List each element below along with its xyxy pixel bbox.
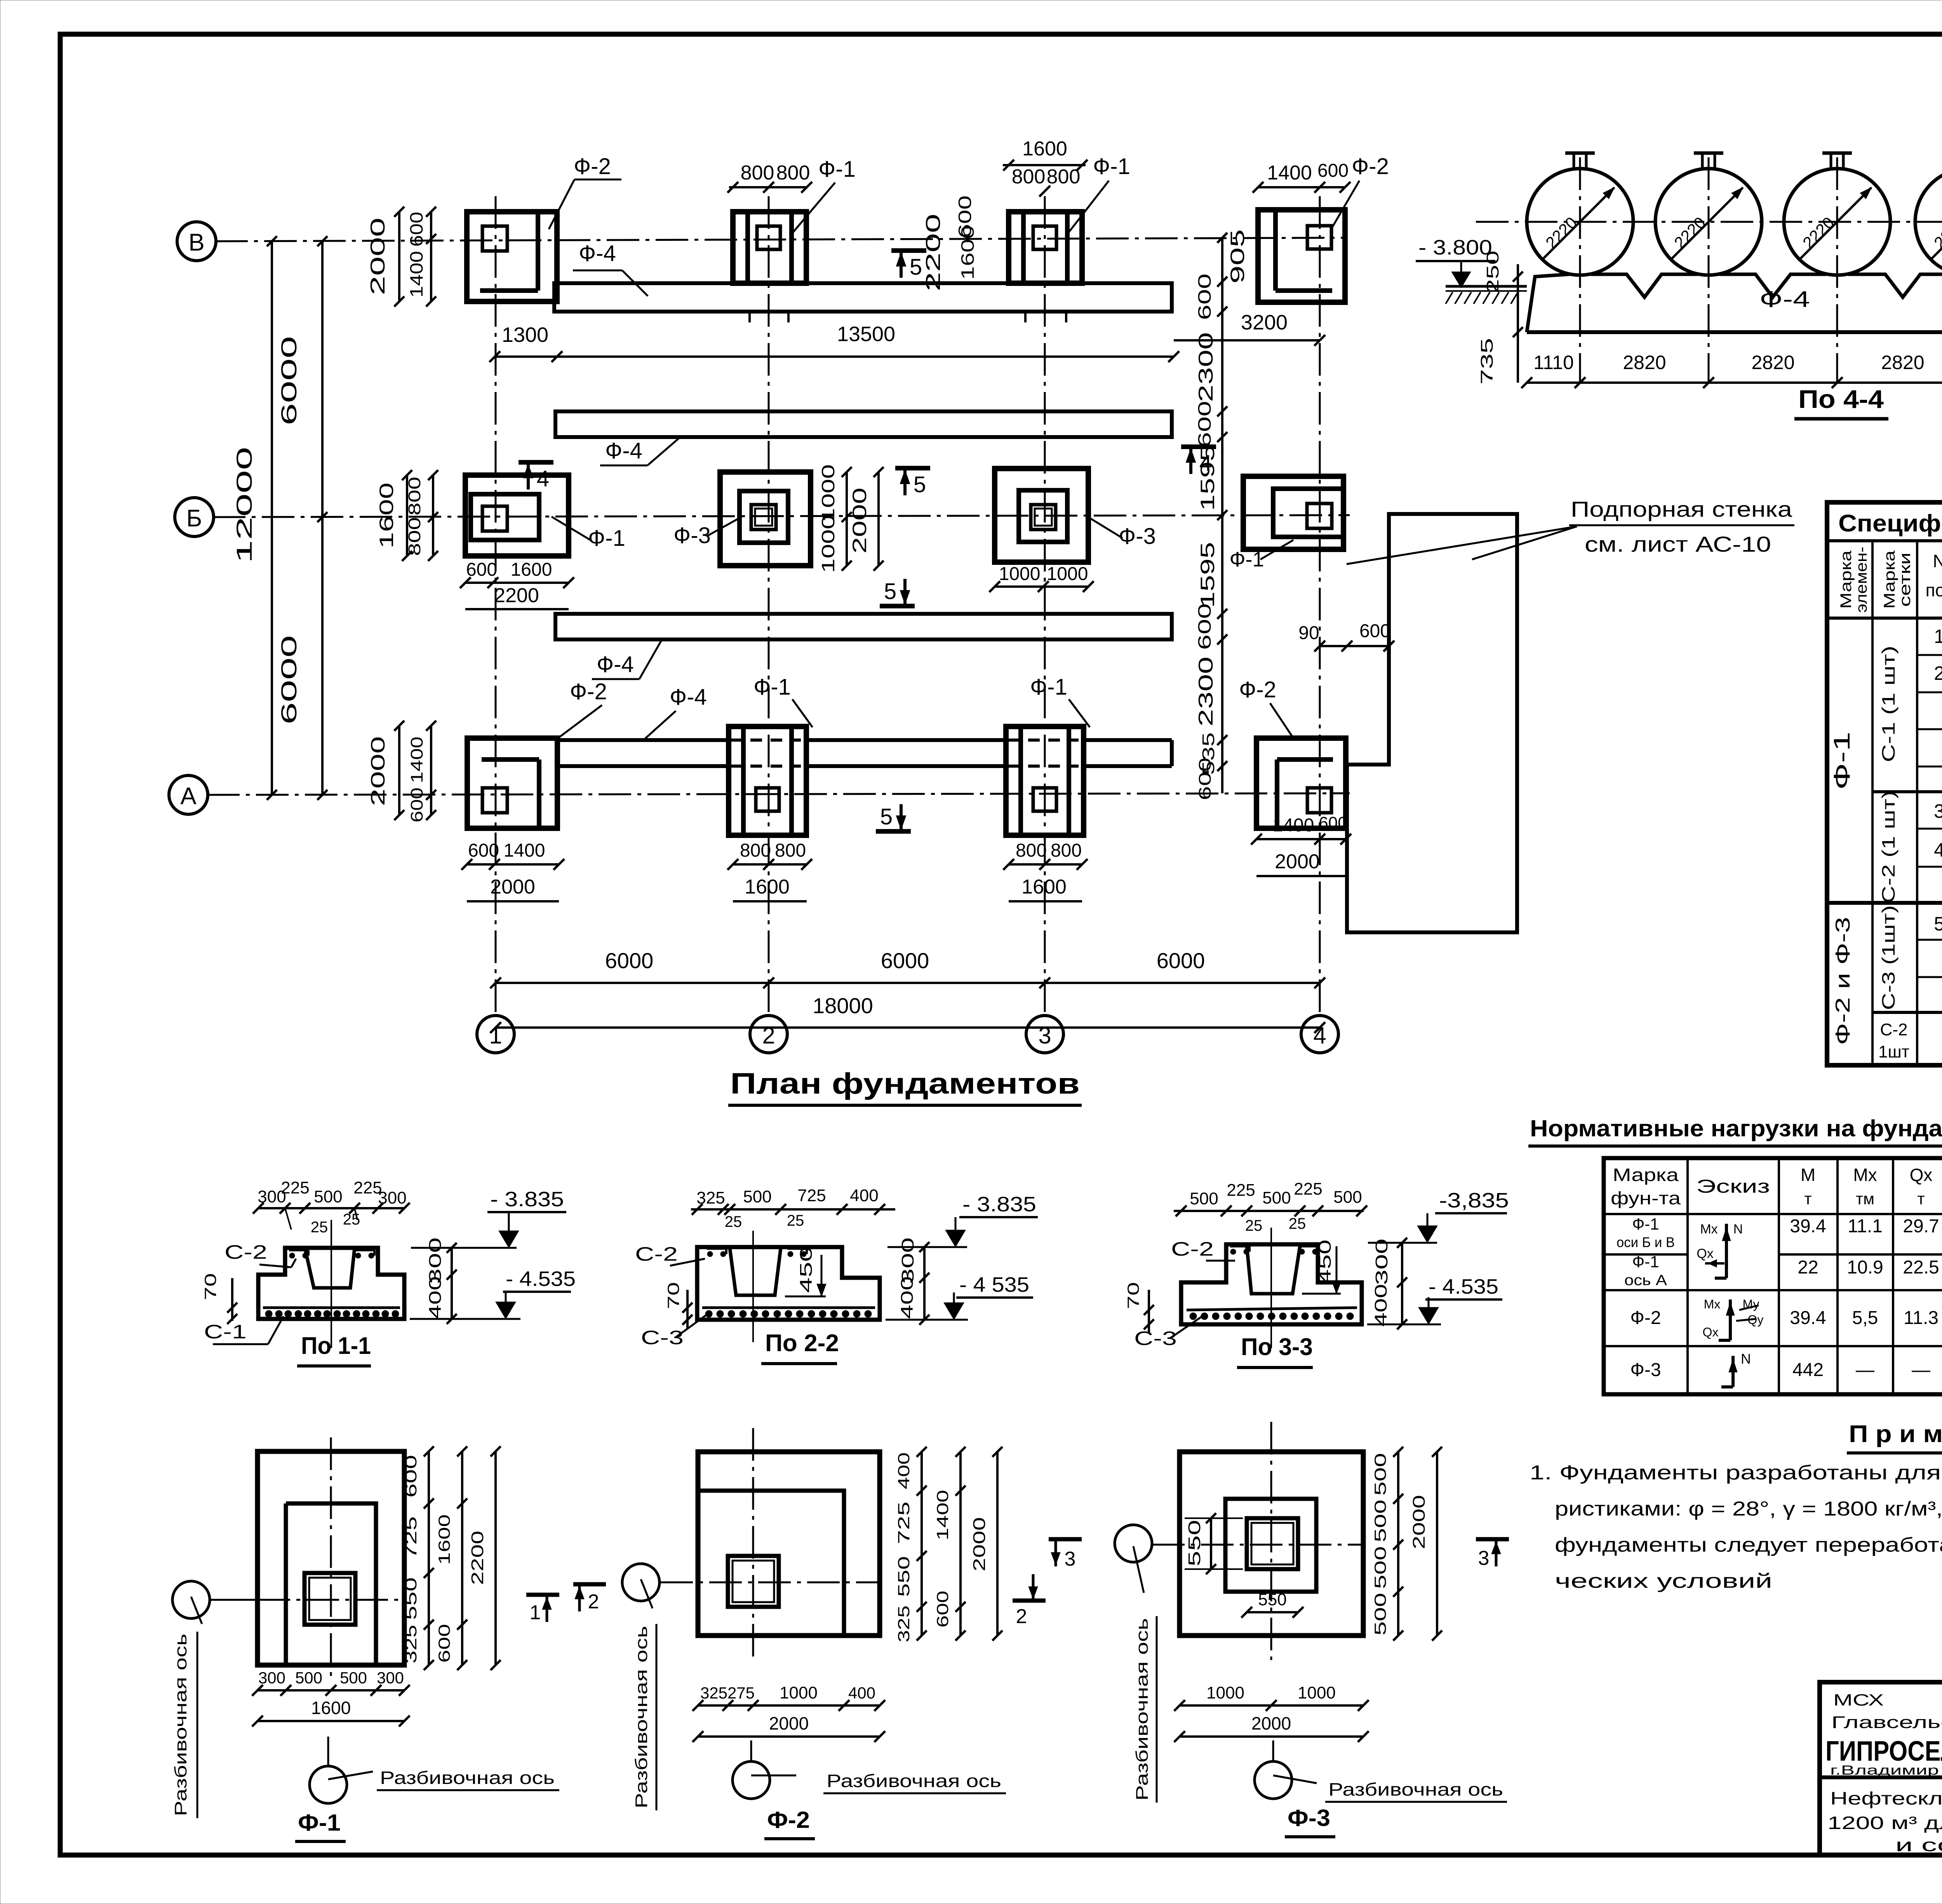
svg-text:600: 600 (402, 1455, 420, 1498)
dimension 2000 1400 600 слева от Ф-2 В/1 (398, 212, 400, 301)
svg-text:С-3: С-3 (641, 1327, 684, 1348)
axis circle 3 (1026, 1016, 1063, 1053)
svg-text:Qх: Qх (1910, 1165, 1933, 1185)
По 3-3 centerline (1270, 1228, 1272, 1348)
svg-text:С-1: С-1 (204, 1321, 247, 1343)
svg-text:6000: 6000 (1157, 948, 1205, 973)
footing Ф-2 А/1 (467, 738, 557, 828)
svg-text:М: М (1801, 1165, 1815, 1185)
svg-text:400: 400 (426, 1276, 445, 1319)
svg-text:500: 500 (1371, 1546, 1389, 1589)
footing Ф-1 Б/1 (465, 475, 569, 556)
svg-text:По 2-2: По 2-2 (765, 1330, 839, 1357)
axis line 3 (1044, 196, 1046, 1015)
foundation strip Ф-4 section 4-4 (1527, 274, 1942, 332)
section mark 3 right of Ф-3 (1476, 1537, 1509, 1542)
svg-text:Мх: Мх (1704, 1297, 1721, 1311)
svg-text:ГИПРОСЕЛЬХОЗПРОМ: ГИПРОСЕЛЬХОЗПРОМ (1825, 1736, 1942, 1767)
strip footing Ф-4 middle 2 (555, 614, 1172, 639)
dimension 800 800 под Ф-1 А/2 (733, 863, 807, 866)
svg-text:2820: 2820 (1623, 352, 1666, 373)
svg-text:1600: 1600 (1022, 138, 1067, 160)
tank centerline 1 (1579, 157, 1581, 383)
По 3-3 dims 300 400 (1372, 1239, 1391, 1285)
title block frame (1820, 1682, 1942, 1855)
dimension 800 800 над осью 2 (729, 186, 807, 188)
svg-text:1: 1 (1934, 625, 1942, 647)
svg-text:1000: 1000 (780, 1683, 818, 1702)
section По 3-3 body (1181, 1244, 1362, 1324)
dim 250 735 left (1483, 251, 1502, 293)
svg-text:18000: 18000 (813, 993, 873, 1018)
dimension 905 600 right of В (1221, 238, 1223, 312)
svg-text:600: 600 (407, 787, 426, 822)
svg-text:Ф-1: Ф-1 (1829, 732, 1855, 790)
svg-text:В: В (188, 229, 204, 256)
tank nozzle 3 (1830, 153, 1832, 169)
axis circle 4 (1301, 1016, 1338, 1053)
svg-text:22.5: 22.5 (1903, 1257, 1939, 1278)
detail Ф-1 dim 2200 (494, 1451, 497, 1665)
svg-text:- 4.535: - 4.535 (506, 1267, 576, 1291)
svg-text:800: 800 (405, 517, 424, 556)
svg-text:Ф-4: Ф-4 (605, 438, 642, 463)
svg-text:1000: 1000 (999, 564, 1041, 584)
svg-text:500: 500 (1371, 1453, 1389, 1496)
svg-text:2820: 2820 (1751, 352, 1794, 373)
svg-text:25: 25 (1289, 1215, 1306, 1232)
label Ф-2 и Ф-3 (rotated) (1832, 917, 1854, 1045)
dimension 2300 600 right chain (1221, 312, 1223, 515)
detail Ф-1 outer (258, 1451, 404, 1665)
svg-text:325: 325 (894, 1606, 913, 1643)
axis line В (215, 238, 1345, 241)
dimension 2200 1600 600 возле сечения 5 (922, 214, 945, 291)
svg-text:400: 400 (1371, 1284, 1390, 1327)
axis circle 1 (477, 1016, 514, 1053)
footing Ф-2 В/1 (467, 212, 557, 301)
svg-text:1600: 1600 (511, 559, 552, 580)
svg-text:1000: 1000 (1047, 564, 1088, 584)
svg-text:450: 450 (1316, 1240, 1335, 1284)
svg-text:725: 725 (894, 1502, 913, 1544)
detail Ф-2 dim 2000 (996, 1452, 999, 1636)
svg-text:600: 600 (1194, 603, 1215, 650)
svg-text:1400: 1400 (504, 840, 545, 861)
svg-text:3: 3 (1478, 1547, 1490, 1570)
svg-text:Ф-1: Ф-1 (1093, 154, 1130, 179)
tank nozzle 2 (1701, 153, 1704, 169)
svg-text:Подпорная стенка: Подпорная стенка (1571, 497, 1792, 521)
detail Ф-3 centerlines (1152, 1544, 1363, 1546)
footing Ф-2 А/4 (1256, 738, 1346, 828)
footing Ф-1 А/2 (729, 726, 806, 835)
svg-text:5: 5 (1934, 913, 1942, 935)
detail Ф-2 centerlines (660, 1582, 880, 1583)
svg-text:70: 70 (1124, 1282, 1142, 1309)
svg-text:800: 800 (775, 840, 806, 861)
svg-text:—: — (1912, 1360, 1930, 1380)
svg-text:Разбивочная ось: Разбивочная ось (1328, 1779, 1503, 1799)
svg-text:По 3-3: По 3-3 (1241, 1334, 1313, 1360)
svg-text:фундаменты следует перераб: фундаменты следует переработать в зависи… (1555, 1534, 1942, 1556)
axis circle 2 (750, 1016, 787, 1053)
По 2-2 centerline (752, 1231, 754, 1342)
svg-text:11.3: 11.3 (1904, 1308, 1939, 1328)
svg-text:500: 500 (295, 1669, 322, 1687)
svg-text:25: 25 (787, 1212, 804, 1229)
svg-text:300: 300 (1372, 1239, 1391, 1285)
table column lines (1871, 541, 1874, 1065)
svg-text:1600: 1600 (435, 1514, 453, 1565)
svg-text:4: 4 (1934, 839, 1942, 861)
svg-text:Ф-4: Ф-4 (597, 652, 634, 677)
По 2-2 С-2 marks (707, 1251, 713, 1257)
svg-text:Ф-1: Ф-1 (588, 526, 625, 551)
svg-text:1400: 1400 (1267, 162, 1312, 184)
svg-text:5: 5 (884, 579, 896, 604)
detail Ф-2 bottom dims 325 275 1000 400 (698, 1704, 880, 1707)
svg-text:325: 325 (696, 1188, 725, 1207)
svg-text:С-2 (1 шт): С-2 (1 шт) (1878, 791, 1898, 903)
svg-text:Ф-4: Ф-4 (670, 685, 707, 710)
svg-text:поз: поз (1925, 580, 1942, 600)
svg-text:600: 600 (1319, 814, 1347, 833)
group separator С-3 / С-2 (1872, 1011, 1942, 1014)
svg-text:2300: 2300 (1195, 332, 1217, 402)
svg-text:1600: 1600 (376, 483, 397, 549)
svg-text:Нормативные нагрузки на фунд: Нормативные нагрузки на фундамент от кол… (1530, 1115, 1942, 1141)
svg-text:2000: 2000 (490, 876, 535, 898)
svg-text:500: 500 (1371, 1593, 1389, 1636)
section mark 5 mid lower (880, 604, 915, 608)
detail Ф-3 dim 2000 bottom (1180, 1735, 1363, 1738)
tank circle 4 (1915, 169, 1942, 275)
svg-text:550: 550 (1258, 1590, 1286, 1609)
svg-text:600: 600 (1194, 401, 1215, 448)
svg-text:6000: 6000 (881, 948, 929, 973)
svg-text:т: т (1804, 1190, 1811, 1208)
svg-text:500: 500 (1190, 1189, 1218, 1208)
dim row 1110 2820x4 1110 (1527, 381, 1942, 384)
svg-text:11.1: 11.1 (1848, 1216, 1883, 1237)
axis line А (207, 793, 1350, 795)
section mark 5 А (876, 829, 911, 834)
svg-text:450: 450 (797, 1246, 816, 1293)
detail Ф-3 middle (1225, 1499, 1316, 1592)
svg-text:800: 800 (740, 840, 771, 861)
svg-text:Ф-2: Ф-2 (570, 679, 607, 704)
tank circle 3 (1784, 169, 1890, 275)
По 1-1 dims 300 400 (426, 1237, 445, 1284)
svg-text:По 1-1: По 1-1 (301, 1333, 371, 1359)
tank nozzle 1 (1573, 153, 1575, 169)
leader lines to retaining wall (1347, 526, 1577, 564)
svg-text:600: 600 (1195, 758, 1215, 800)
svg-text:С-1 (1 шт): С-1 (1 шт) (1878, 646, 1898, 762)
svg-text:2000: 2000 (1251, 1713, 1291, 1733)
svg-text:Ф-3: Ф-3 (673, 523, 711, 548)
svg-text:ческих условий: ческих условий (1555, 1570, 1772, 1592)
dimension 3200 row В (1174, 339, 1320, 341)
svg-text:600: 600 (435, 1624, 453, 1663)
По 1-1 centerline (331, 1220, 332, 1348)
svg-text:800: 800 (741, 162, 774, 184)
svg-text:250: 250 (1483, 251, 1502, 293)
loads sketch 1 (1725, 1224, 1728, 1278)
detail Ф-2 outer (698, 1452, 880, 1636)
svg-text:2: 2 (1934, 662, 1942, 684)
svg-text:5: 5 (880, 804, 893, 829)
По 3-3 dim 70 (1124, 1282, 1142, 1309)
По 2-2 dims 300 400 (898, 1237, 917, 1284)
svg-text:Б: Б (186, 505, 202, 532)
svg-text:600: 600 (1194, 273, 1215, 320)
svg-text:1300: 1300 (502, 323, 548, 347)
svg-text:Разбивочная ось: Разбивочная ось (632, 1626, 651, 1808)
svg-text:Ф-2: Ф-2 (767, 1807, 810, 1833)
svg-text:-3,835: -3,835 (1439, 1189, 1509, 1212)
footing Ф-1 А/3 (1006, 726, 1084, 835)
detail Ф-3 outer (1180, 1452, 1363, 1636)
header Марка сетки (rotated) (1881, 550, 1898, 609)
svg-text:442: 442 (1792, 1360, 1824, 1380)
svg-text:500: 500 (1262, 1188, 1291, 1207)
svg-text:1: 1 (530, 1601, 541, 1624)
svg-text:2820: 2820 (1881, 352, 1924, 373)
svg-text:225: 225 (1294, 1179, 1322, 1198)
svg-text:2300: 2300 (1195, 657, 1217, 726)
svg-text:1400: 1400 (933, 1490, 952, 1540)
svg-text:3: 3 (1934, 800, 1942, 822)
svg-text:225: 225 (1227, 1181, 1255, 1200)
dimension 1400 600 над Ф-2 В/4 (1258, 186, 1345, 188)
svg-text:Мх: Мх (1853, 1165, 1877, 1185)
svg-text:800: 800 (405, 477, 424, 516)
dimension 13500 row В (557, 355, 1174, 358)
detail Ф-1 разбивочная ось (rotated) (171, 1634, 190, 1816)
svg-text:400: 400 (894, 1453, 913, 1489)
detail Ф-3 dim 550 left (1185, 1520, 1204, 1566)
svg-text:550: 550 (1185, 1520, 1204, 1566)
svg-text:По 4-4: По 4-4 (1798, 385, 1884, 413)
svg-text:Ф-2: Ф-2 (1630, 1308, 1661, 1328)
header Марка элемента (rotated) (1838, 550, 1855, 609)
svg-text:- 3.800: - 3.800 (1418, 236, 1492, 259)
svg-text:600: 600 (468, 840, 499, 861)
svg-text:905: 905 (1227, 229, 1248, 284)
svg-text:500: 500 (1333, 1188, 1362, 1207)
detail Ф-3 bottom dims 1000 1000 (1180, 1704, 1363, 1707)
loads sketch 3 (Ф-3) (1731, 1356, 1735, 1387)
svg-text:2000: 2000 (367, 218, 389, 295)
svg-text:5,5: 5,5 (1852, 1308, 1878, 1328)
svg-text:13500: 13500 (837, 322, 895, 346)
svg-text:ристиками: φ = 28°, γ = 1800: ристиками: φ = 28°, γ = 1800 кг/м³, с = … (1555, 1498, 1942, 1520)
detail Ф-3 bottom axis circle (1255, 1761, 1292, 1799)
svg-text:5: 5 (910, 254, 922, 280)
svg-text:10.9: 10.9 (1847, 1257, 1883, 1278)
svg-text:2: 2 (1016, 1605, 1027, 1628)
svg-text:4: 4 (537, 466, 549, 491)
svg-text:90: 90 (1298, 623, 1319, 643)
dimension 1595 1595 600 right chain Б (1221, 515, 1223, 793)
svg-text:Нефтесклад емкостью: Нефтесклад емкостью (1830, 1788, 1942, 1808)
detail Ф-2 axis circle left (622, 1564, 660, 1601)
svg-text:С-2: С-2 (1171, 1238, 1214, 1260)
section По 4-4 tank axis line (1476, 221, 1942, 223)
dimension 1600 800 800 слева от Ф-1 Б/1 (406, 475, 408, 556)
svg-text:600: 600 (1317, 160, 1349, 181)
svg-text:6000: 6000 (277, 635, 301, 725)
svg-text:500: 500 (743, 1187, 771, 1206)
svg-text:г.Владимир: г.Владимир (1830, 1763, 1939, 1778)
По 1-1 mesh line and dots (263, 1306, 400, 1309)
detail Ф-1 inner (286, 1503, 376, 1665)
svg-text:6000: 6000 (277, 336, 301, 425)
svg-text:2000: 2000 (970, 1517, 989, 1571)
svg-text:1000: 1000 (818, 515, 838, 573)
svg-text:фун-та: фун-та (1611, 1188, 1681, 1208)
svg-text:Ф-3: Ф-3 (1630, 1360, 1661, 1380)
svg-text:Эскиз: Эскиз (1696, 1176, 1770, 1197)
tank circle 2 (1655, 169, 1762, 275)
tank centerline 3 (1836, 157, 1838, 383)
svg-text:800: 800 (1051, 840, 1082, 861)
svg-text:оси Б и В: оси Б и В (1617, 1234, 1675, 1250)
svg-text:1110: 1110 (1533, 352, 1574, 373)
detail Ф-1 centerlines (258, 1599, 404, 1601)
rebar spec table outer frame (1827, 502, 1942, 1065)
loads sketch 2 (Ф-2) (1729, 1300, 1732, 1340)
svg-text:600: 600 (406, 212, 426, 247)
detail Ф-1 dims 1600 600 (461, 1451, 463, 1665)
По 1-1 top dims (258, 1207, 404, 1209)
svg-text:6000: 6000 (605, 948, 654, 973)
svg-text:С-2: С-2 (224, 1241, 267, 1263)
svg-text:сетки: сетки (1897, 552, 1914, 607)
dimension 1600 над осью 3 (1003, 164, 1086, 166)
dimension 12000 left (271, 241, 273, 795)
svg-text:Главсельстройпроект: Главсельстройпроект (1831, 1713, 1942, 1732)
dimension 1300 под Ф-2 В/1 (495, 355, 557, 358)
dimension 6000 Б-А left (321, 517, 324, 795)
svg-text:725: 725 (797, 1186, 826, 1205)
section marks 1 and 2 near Ф-1 (526, 1593, 559, 1597)
dimension 6000 6000 6000 bottom (496, 982, 1320, 984)
svg-text:3: 3 (1065, 1548, 1076, 1570)
По 3-3 trough (1247, 1246, 1300, 1294)
svg-text:600: 600 (466, 559, 497, 580)
section mark 4 right (1181, 444, 1216, 449)
svg-text:Марка: Марка (1838, 550, 1855, 609)
axis circle В (177, 222, 216, 261)
axis line Б (213, 515, 1350, 517)
svg-text:Ф-1: Ф-1 (298, 1810, 341, 1836)
dimension 1000 1000 под Ф-3 Б/3 (995, 585, 1088, 588)
svg-text:325: 325 (700, 1684, 727, 1702)
По 3-3 mesh line and dots (1187, 1308, 1357, 1310)
dimension 18000 bottom (496, 1026, 1320, 1029)
svg-text:С-2: С-2 (1880, 1020, 1908, 1039)
По 2-2 dim 450 (797, 1246, 816, 1293)
detail Ф-2 column (728, 1556, 779, 1607)
svg-text:600: 600 (1359, 621, 1390, 641)
footing Ф-2 В/4 (1258, 210, 1345, 302)
svg-text:550: 550 (402, 1577, 420, 1620)
svg-text:300: 300 (258, 1669, 285, 1687)
label С-1 (1 шт) rotated (1878, 646, 1898, 762)
row lines N поз column (1917, 654, 1942, 656)
svg-text:- 4.535: - 4.535 (1429, 1275, 1498, 1298)
label С-2 (1 шт) rotated (1878, 791, 1898, 903)
svg-text:1400: 1400 (406, 251, 426, 298)
svg-text:МСХ: МСХ (1833, 1691, 1884, 1709)
svg-text:N: N (1933, 551, 1942, 571)
svg-text:500: 500 (1371, 1500, 1389, 1542)
dimension 6000 В-Б left (321, 241, 324, 517)
svg-text:25: 25 (311, 1219, 328, 1236)
axis line 1 (495, 196, 497, 1015)
strip footing Ф-4 middle 1 (555, 411, 1172, 437)
svg-text:25: 25 (1245, 1217, 1263, 1234)
svg-text:300: 300 (377, 1669, 404, 1687)
svg-text:400: 400 (850, 1186, 878, 1205)
svg-text:Qх: Qх (1697, 1246, 1713, 1261)
По 2-2 top dims (691, 1208, 895, 1211)
svg-text:29.7: 29.7 (1903, 1216, 1939, 1237)
strip footing Ф-4 row А (559, 738, 727, 742)
dimension 2000 1400 600 слева от Ф-2 А/1 (398, 726, 400, 815)
tank circle 1 (1527, 169, 1633, 275)
svg-text:1600: 1600 (745, 876, 790, 898)
svg-text:Ф-2: Ф-2 (1352, 154, 1389, 179)
svg-text:Qх: Qх (1703, 1325, 1719, 1339)
svg-text:Разбивочная ось: Разбивочная ось (1133, 1618, 1152, 1801)
footing Ф-1 В/2 (733, 212, 806, 283)
svg-text:725: 725 (402, 1516, 420, 1559)
loads table grid (1604, 1158, 1942, 1394)
svg-text:2200: 2200 (494, 584, 539, 607)
svg-text:—: — (1856, 1360, 1874, 1380)
svg-text:Ф-1: Ф-1 (1030, 674, 1067, 700)
section mark 5 В (891, 248, 926, 253)
По 2-2 mesh line and dots (702, 1306, 875, 1309)
ground line left of strip (1446, 285, 1527, 288)
svg-text:3200: 3200 (1241, 311, 1288, 334)
svg-text:800: 800 (1047, 165, 1081, 188)
dimension 1400 600 под Ф-2 А/4 (1256, 838, 1346, 840)
svg-text:1595: 1595 (1197, 542, 1218, 608)
detail Ф-2 bottom axis circle (733, 1761, 770, 1799)
svg-text:Ф-3: Ф-3 (1288, 1805, 1330, 1831)
svg-text:400: 400 (898, 1276, 917, 1319)
svg-text:N: N (1741, 1351, 1751, 1367)
svg-text:2000: 2000 (1410, 1495, 1429, 1549)
detail Ф-1 column (305, 1573, 355, 1625)
svg-text:План фундаментов: План фундаментов (730, 1067, 1080, 1100)
По 2-2 trough (730, 1248, 781, 1295)
svg-text:800: 800 (776, 162, 810, 184)
svg-text:Ф-2: Ф-2 (1239, 677, 1276, 702)
svg-text:Ф-1: Ф-1 (753, 674, 791, 700)
svg-text:тм: тм (1856, 1190, 1874, 1208)
svg-text:225: 225 (281, 1178, 309, 1197)
svg-text:800: 800 (1012, 165, 1046, 188)
dimension 600 1600 под Ф-1 Б/1 (465, 582, 569, 584)
svg-text:Ф-1: Ф-1 (818, 157, 856, 182)
svg-text:N: N (1733, 1222, 1743, 1237)
